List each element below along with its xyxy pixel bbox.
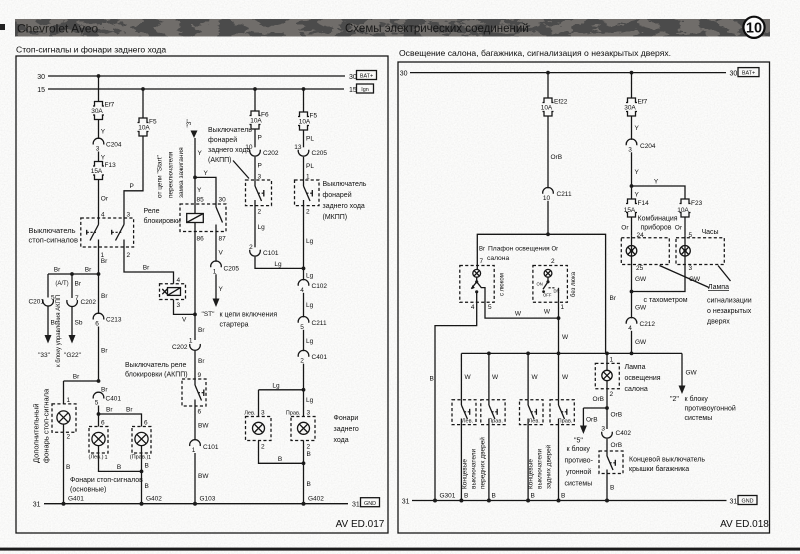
svg-text:W: W (465, 374, 472, 381)
svg-text:OrB: OrB (551, 154, 563, 161)
connector C211 pin 10 (543, 187, 572, 201)
svg-text:10: 10 (746, 20, 762, 36)
label Лампа освещения салона (625, 364, 661, 393)
svg-text:переключателя: переключателя (168, 151, 175, 198)
svg-text:P: P (130, 183, 134, 190)
right reverse lamp box (291, 417, 315, 441)
wire C205 to ST arrow, Y (216, 274, 224, 298)
junction relay coil/contact branch (193, 176, 197, 180)
svg-text:Br: Br (143, 265, 150, 272)
svg-text:1: 1 (189, 338, 193, 345)
wire Ef22 to C211, OrB (548, 116, 562, 188)
svg-text:Or: Or (675, 225, 683, 232)
left lamp label (Лев.) 1 (88, 455, 107, 462)
svg-text:BW: BW (198, 473, 209, 480)
svg-text:противоугонной: противоугонной (685, 405, 736, 413)
svg-text:Схемы электрических соединений: Схемы электрических соединений (345, 23, 529, 35)
svg-text:Lg: Lg (258, 224, 266, 231)
svg-text:30: 30 (400, 71, 408, 78)
svg-text:C204: C204 (106, 142, 122, 149)
svg-text:Y: Y (101, 129, 106, 136)
svg-text:3: 3 (307, 410, 311, 417)
svg-text:F5: F5 (149, 119, 157, 126)
connector C402 pin 3 (601, 425, 631, 438)
svg-text:Y: Y (635, 125, 640, 132)
svg-text:блокировки: блокировки (144, 217, 181, 225)
svg-text:Концевые: Концевые (462, 459, 469, 489)
svg-text:Лампа: Лампа (708, 284, 729, 291)
wire F14 to cluster, Or (621, 217, 631, 235)
svg-text:7: 7 (75, 295, 79, 302)
svg-text:Освещение салона, багажника, с: Освещение салона, багажника, сигнализаци… (399, 48, 671, 58)
wire C401 to lamps (303, 364, 305, 417)
front-right door switch box (481, 400, 505, 425)
wire arrow to relay, Y labels (195, 138, 203, 214)
svg-text:86: 86 (197, 236, 205, 243)
MKPP reverse switch (304, 180, 313, 268)
svg-text:1: 1 (192, 447, 196, 454)
wire bus30 to fuse Ef7 (631, 73, 633, 98)
svg-text:Lg: Lg (272, 382, 280, 389)
svg-text:с тахометром: с тахометром (644, 297, 688, 304)
connector C101 pin 1 (190, 440, 219, 454)
rear-left door switch (528, 400, 540, 501)
clock box (676, 238, 724, 265)
dome light unit outline (477, 234, 605, 353)
branch to antitheft, GW (682, 353, 698, 385)
wire bus30 to fuse Ef7 (98, 76, 100, 102)
blocking switch (195, 379, 204, 440)
svg-text:Комбинация: Комбинация (638, 215, 678, 223)
BAT+ box (738, 68, 759, 77)
svg-text:2: 2 (307, 444, 311, 451)
svg-text:Концевой выключатель: Концевой выключатель (629, 456, 705, 464)
svg-text:системы: системы (565, 481, 593, 488)
bus 30 wire (410, 72, 726, 74)
wire C205 to MKPP switch, PL (304, 157, 315, 180)
dome lamp no-sunroof (537, 269, 560, 302)
svg-text:1: 1 (561, 304, 565, 311)
wire pin4 to B ground drop (435, 302, 477, 500)
ground dots door switches (459, 499, 463, 503)
fuse F5 10A (MKPP) (298, 112, 317, 130)
fuse Ef7 30A (91, 102, 114, 120)
junction reverse branch (302, 388, 306, 392)
svg-text:6: 6 (101, 420, 105, 427)
svg-text:стоп-сигналов: стоп-сигналов (29, 236, 78, 245)
wire right lamp to ground, B (142, 453, 149, 504)
wire relay86 down (194, 232, 196, 315)
svg-text:10: 10 (543, 195, 551, 202)
svg-text:4: 4 (628, 325, 632, 332)
svg-text:Br: Br (101, 293, 108, 300)
svg-text:BAT+: BAT+ (742, 71, 755, 77)
svg-text:Sb: Sb (75, 320, 83, 327)
pointer line AKPP (233, 161, 249, 179)
svg-text:1: 1 (105, 455, 108, 461)
svg-text:5: 5 (300, 324, 304, 331)
label Выключатель фонарей заднего хода (АКПП) (208, 127, 252, 164)
svg-text:Br: Br (479, 247, 485, 253)
svg-text:31: 31 (33, 502, 41, 509)
wire additional lamp to ground, B (64, 432, 71, 503)
svg-text:Выключатель: Выключатель (323, 181, 367, 188)
pointer line to cluster lamp (660, 266, 710, 288)
connector C212 pin 4 (626, 317, 655, 331)
svg-text:заднего хода: заднего хода (323, 203, 365, 210)
svg-text:передних дверей: передних дверей (479, 437, 487, 489)
svg-text:Лев.: Лев. (529, 418, 541, 424)
svg-text:стартера: стартера (220, 322, 249, 329)
svg-text:Br: Br (610, 295, 617, 302)
relay coil (187, 214, 204, 232)
svg-text:Lg: Lg (306, 302, 314, 309)
wire Ef7 to C204, Y (632, 116, 640, 140)
connector C204 pin 3 right (626, 139, 656, 153)
label Лампа сигнализации о незакрытых дверях (707, 284, 752, 326)
label Комбинация приборов (638, 215, 678, 232)
svg-text:Or: Or (621, 225, 629, 232)
connector C102 pin 4 (298, 279, 327, 293)
svg-text:1: 1 (67, 397, 71, 404)
svg-text:Lg: Lg (306, 338, 314, 345)
svg-text:1: 1 (610, 357, 614, 364)
svg-text:к блоку управления АКПП: к блоку управления АКПП (56, 295, 62, 367)
svg-text:GW: GW (635, 339, 647, 346)
svg-text:13: 13 (294, 144, 302, 151)
svg-text:Ef22: Ef22 (554, 99, 568, 106)
svg-text:салона: салона (487, 255, 509, 262)
GW labels under boxes (635, 276, 701, 283)
svg-text:GW: GW (635, 276, 647, 283)
connector C202 pin 10 (245, 144, 279, 157)
wire C101 to ground, BW (195, 453, 209, 504)
node dots on bus (487, 352, 491, 356)
svg-text:B: B (464, 493, 468, 500)
svg-text:C204: C204 (640, 143, 656, 150)
page number circle 10 (743, 17, 764, 38)
wire right reverse to ground, B (304, 441, 311, 504)
svg-text:W: W (532, 374, 539, 381)
svg-text:блокировки (АКПП): блокировки (АКПП) (125, 371, 188, 379)
svg-text:Лев.: Лев. (244, 411, 256, 417)
wire C204 down Y (632, 152, 640, 199)
svg-text:Br: Br (75, 281, 82, 288)
svg-text:C401: C401 (312, 354, 328, 361)
wire C211 to C401, Lg (304, 330, 314, 351)
svg-text:G401: G401 (68, 496, 84, 503)
vertical label Концевые выключатели передних дверей (462, 437, 487, 489)
svg-text:Y: Y (654, 179, 659, 186)
AKPP reverse switch box (246, 180, 272, 206)
instrument cluster box (621, 238, 669, 265)
wire C202 down Sb (72, 307, 83, 335)
ground G401 (62, 496, 85, 506)
svg-text:Chevrolet Aveo: Chevrolet Aveo (17, 22, 98, 36)
svg-text:Фонари стоп-сигналов: Фонари стоп-сигналов (70, 477, 143, 484)
bus 15 wire (48, 88, 344, 90)
ignition feed arrow (191, 131, 198, 139)
connector C202 pin 7 (67, 295, 97, 307)
svg-text:к блоку: к блоку (685, 395, 709, 403)
diode element (162, 288, 180, 296)
svg-text:4: 4 (177, 277, 181, 284)
svg-text:C102: C102 (312, 283, 328, 290)
ground G402 (140, 496, 163, 506)
svg-text:W: W (562, 334, 569, 341)
connector C213 pin 6 (93, 313, 122, 327)
svg-text:Y: Y (219, 286, 224, 293)
relay contact blade (216, 207, 223, 232)
bottom scan line (0, 548, 800, 551)
svg-text:PL: PL (306, 163, 314, 170)
junction additional lamp tap (97, 379, 101, 383)
svg-text:Lg: Lg (306, 397, 314, 404)
right panel border (398, 62, 770, 533)
svg-text:3: 3 (628, 146, 632, 153)
svg-text:3: 3 (689, 265, 693, 272)
dome lamp sunroof box (460, 266, 494, 303)
svg-text:B: B (307, 451, 311, 458)
label Реле блокировки (144, 208, 181, 225)
svg-text:Br: Br (126, 407, 133, 414)
svg-text:V: V (219, 250, 224, 257)
svg-text:GW: GW (635, 305, 647, 312)
svg-text:G301: G301 (440, 493, 456, 500)
svg-text:Br: Br (101, 387, 108, 394)
node bus30 Ef22 (546, 71, 550, 75)
connector C202 pin 1 (AKPP switch) (172, 338, 200, 352)
svg-text:W: W (515, 311, 522, 318)
wire F13 to stop switch, Or (99, 180, 109, 219)
node bus15-colB (141, 87, 145, 91)
arrow antitheft 2 (679, 386, 686, 395)
svg-text:30A: 30A (624, 105, 636, 112)
junction right lamp tap (97, 412, 101, 416)
label "2" к блоку противоугонной системы (670, 395, 736, 422)
svg-text:2: 2 (551, 258, 555, 265)
wire C201 down Br (48, 307, 58, 336)
fuse F13 15A (91, 162, 116, 180)
wire to C202 pin7, Br (72, 274, 82, 298)
svg-text:10A: 10A (541, 105, 553, 112)
svg-text:C101: C101 (203, 444, 219, 451)
svg-text:"3": "3" (186, 119, 193, 128)
svg-text:Br: Br (101, 258, 108, 265)
label Концевой выключатель крышки багажника (629, 456, 705, 474)
stop switch pole 1 (87, 218, 99, 247)
wire C102 to C211, Lg (304, 293, 314, 318)
wire C202 to AKPP switch, P (255, 157, 262, 180)
svg-text:30: 30 (349, 74, 357, 81)
svg-text:C205: C205 (224, 266, 240, 273)
svg-text:Прав.: Прав. (558, 418, 573, 424)
ground bus 31 right (402, 499, 738, 506)
left stop lamp (92, 432, 105, 453)
label Фонари стоп-сигналов (основные) (70, 477, 143, 494)
label Выключатель стоп-сигналов (29, 226, 78, 245)
svg-text:"ST": "ST" (202, 311, 216, 318)
pointer line to clock lamp (718, 266, 731, 282)
svg-text:G103: G103 (200, 496, 216, 503)
header bar (15, 19, 770, 37)
wire bus15 to fuse F5 (142, 89, 144, 118)
svg-text:2: 2 (67, 434, 71, 441)
svg-text:хода: хода (334, 437, 349, 444)
left reverse lamp labels (244, 410, 265, 417)
svg-text:Выключатель: Выключатель (208, 127, 252, 134)
svg-text:(основные): (основные) (70, 487, 106, 494)
svg-text:10A: 10A (250, 118, 262, 125)
svg-text:OFF: OFF (543, 293, 552, 298)
svg-text:BAT+: BAT+ (360, 74, 373, 80)
svg-text:Лампа: Лампа (625, 364, 646, 371)
connector C205 pin 13 (294, 144, 327, 157)
svg-text:Фонари: Фонари (334, 415, 359, 422)
svg-text:GND: GND (742, 499, 754, 505)
svg-text:2: 2 (300, 358, 304, 365)
cluster door-ajar lamp (626, 235, 637, 264)
connector C211 pin 5 (298, 316, 327, 330)
svg-text:(Прав.): (Прав.) (130, 455, 149, 461)
svg-text:Y: Y (635, 192, 640, 199)
svg-text:15A: 15A (624, 207, 636, 214)
junction dome feed (546, 232, 550, 236)
svg-text:без люка: без люка (571, 271, 577, 297)
svg-text:F5: F5 (310, 113, 318, 120)
svg-text:Y: Y (198, 150, 203, 157)
svg-text:освещения: освещения (625, 375, 661, 382)
connector C204 pin 3 (93, 138, 122, 152)
right stop lamp box (132, 427, 151, 454)
fuse F23 10A (677, 199, 702, 217)
junction C202 tap (70, 272, 74, 276)
dome lamp sunroof (471, 269, 485, 302)
svg-text:Ef7: Ef7 (105, 102, 115, 109)
svg-text:C211: C211 (557, 191, 572, 198)
svg-text:B: B (145, 463, 149, 470)
svg-text:ON: ON (537, 282, 543, 287)
wire C212 to node bus, GW (632, 331, 648, 354)
svg-text:Lg: Lg (274, 261, 282, 268)
fuse F5 10A (138, 118, 157, 136)
svg-text:фонарей: фонарей (208, 136, 237, 144)
wire to C102, Lg (304, 268, 314, 280)
svg-text:BW: BW (198, 423, 209, 430)
arrow antitheft 5 (580, 426, 587, 435)
svg-text:B: B (278, 456, 282, 463)
interior lamp box (595, 363, 619, 388)
label Выключатель фонарей заднего хода (МКПП) (323, 181, 367, 221)
wire W down to node bus (559, 302, 570, 353)
junction tacho join (630, 290, 634, 294)
fuse Ef7 30A right (624, 98, 647, 116)
svg-text:Lg: Lg (306, 238, 314, 245)
left edge scan blob (0, 24, 5, 30)
svg-text:W: W (562, 374, 569, 381)
fuse Ef22 10A (541, 98, 568, 116)
svg-text:3: 3 (96, 146, 100, 153)
svg-text:5: 5 (51, 295, 55, 302)
bus 30 wire (48, 75, 345, 77)
ground G301 (433, 493, 456, 503)
junction interior lamp (605, 406, 609, 410)
svg-text:Y: Y (204, 170, 209, 177)
svg-text:Прав.: Прав. (286, 411, 301, 417)
svg-text:30: 30 (730, 71, 738, 78)
svg-text:Лев.: Лев. (462, 418, 474, 424)
wire colA to C213, Br (99, 274, 109, 314)
right stop lamp (135, 432, 148, 453)
svg-text:4: 4 (300, 287, 304, 294)
trunk switch (607, 451, 615, 501)
wire C402 to trunk switch, OrB (607, 408, 622, 451)
svg-text:3: 3 (601, 425, 605, 432)
wire bus15 to fuse F5b (303, 89, 305, 112)
svg-text:2: 2 (249, 244, 253, 251)
svg-text:30A: 30A (91, 108, 103, 115)
stop switch pole 2 (112, 218, 124, 247)
svg-text:F14: F14 (638, 200, 650, 207)
wire C211 to dome unit (547, 201, 549, 235)
junction W join (557, 316, 561, 320)
svg-text:Br: Br (73, 374, 80, 381)
svg-text:"5": "5" (574, 438, 583, 445)
connector C205 pin 1 (211, 261, 240, 275)
wire fuse to C204, Y (99, 120, 106, 139)
svg-text:31: 31 (352, 502, 360, 509)
left reverse lamp (253, 422, 265, 434)
svg-text:фонарь стоп-сигнала: фонарь стоп-сигнала (42, 388, 51, 463)
svg-text:GW: GW (686, 370, 698, 377)
svg-text:PL: PL (306, 136, 314, 143)
label "5" к блоку противоугонной системы (565, 438, 594, 488)
front-left door switch (461, 400, 473, 501)
svg-text:C402: C402 (616, 430, 632, 437)
trunk switch box (599, 451, 623, 474)
svg-text:"2": "2" (670, 396, 679, 403)
door switch drop 2, W (489, 353, 499, 399)
rear-right door switch box (550, 400, 574, 425)
svg-text:P: P (258, 135, 262, 142)
wire pin1 down Br (99, 247, 109, 274)
svg-text:Выключатель реле: Выключатель реле (125, 362, 187, 369)
svg-text:Прав.: Прав. (488, 418, 503, 424)
wire F5 to C205, PL (304, 130, 315, 147)
wire to C201 (47, 274, 49, 298)
wire cluster down (631, 265, 633, 319)
svg-text:Br: Br (198, 358, 205, 365)
branch to contact 30, Y (195, 170, 216, 207)
arrow to 33 (45, 335, 52, 344)
wire clock to join (632, 265, 686, 292)
svg-text:фонарей: фонарей (323, 191, 352, 199)
svg-text:9: 9 (198, 372, 202, 379)
svg-text:Or: Or (101, 196, 109, 203)
svg-text:5: 5 (95, 400, 99, 407)
wire pin5 to W join (485, 302, 559, 318)
svg-text:GND: GND (364, 501, 376, 507)
svg-text:10A: 10A (677, 207, 689, 214)
door switch drop 4, W (559, 353, 570, 399)
wire F6 to C202, P (255, 129, 262, 147)
svg-text:B: B (430, 376, 434, 383)
rear-left door switch box (520, 400, 544, 425)
ground bus 31 (33, 502, 360, 509)
svg-text:C213: C213 (106, 317, 122, 324)
svg-text:2: 2 (306, 209, 310, 216)
wire bus30 to fuse Ef22 (547, 73, 549, 98)
